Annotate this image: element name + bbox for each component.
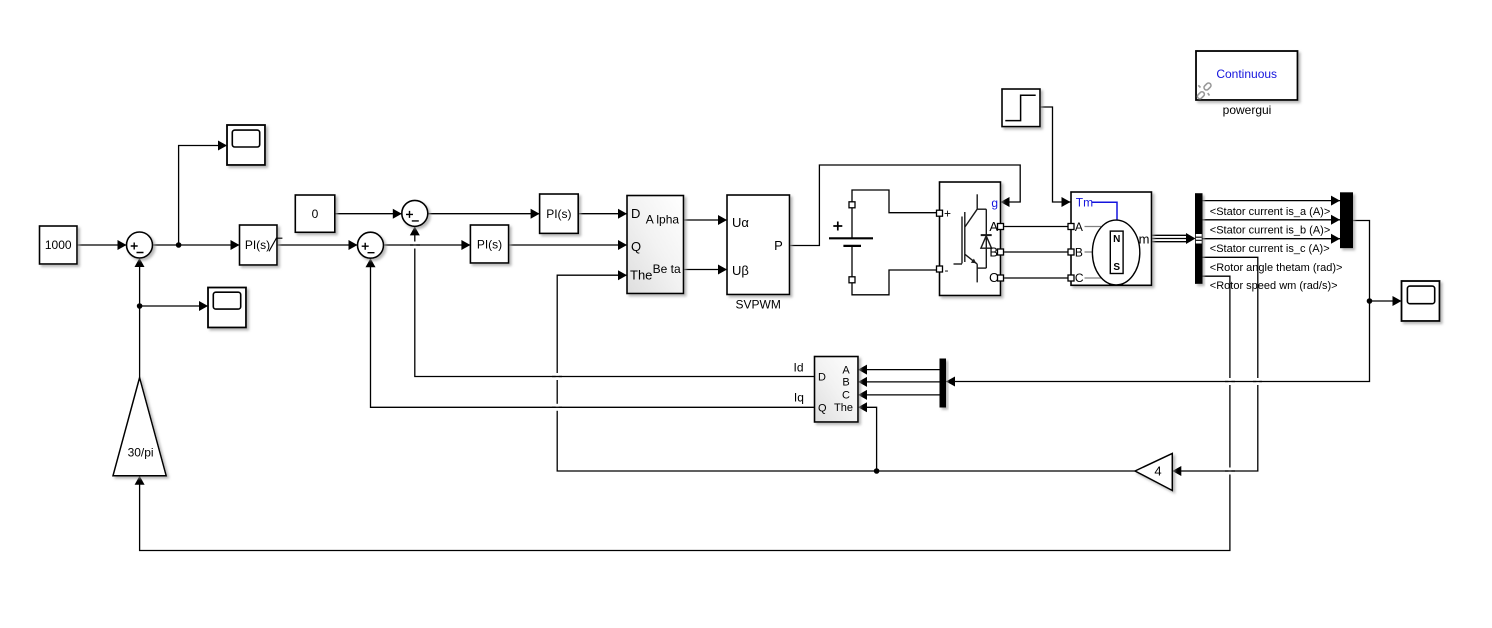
svg-text:4: 4 bbox=[1154, 463, 1161, 478]
svg-text:PI(s): PI(s) bbox=[477, 237, 502, 251]
svg-text:<Rotor angle thetam (rad)>: <Rotor angle thetam (rad)> bbox=[1210, 262, 1343, 274]
svg-text:D: D bbox=[631, 206, 640, 221]
svg-text:Iq: Iq bbox=[794, 390, 804, 404]
svg-text:Continuous: Continuous bbox=[1216, 67, 1277, 81]
svg-text:P: P bbox=[774, 238, 783, 253]
svg-text:Uβ: Uβ bbox=[732, 263, 749, 278]
svg-text:1000: 1000 bbox=[45, 238, 72, 252]
svg-text:A: A bbox=[989, 219, 998, 234]
svg-text:B: B bbox=[1075, 245, 1083, 259]
svg-text:A: A bbox=[842, 364, 850, 376]
svg-text:Q: Q bbox=[631, 239, 641, 254]
svg-text:-: - bbox=[945, 263, 949, 277]
svg-text:Q: Q bbox=[818, 402, 827, 414]
svg-text:B: B bbox=[989, 245, 998, 260]
svg-text:C: C bbox=[842, 390, 850, 402]
svg-text:m: m bbox=[1139, 232, 1150, 247]
svg-text:powergui: powergui bbox=[1223, 103, 1272, 117]
svg-text:The: The bbox=[834, 402, 853, 414]
svg-text:SVPWM: SVPWM bbox=[736, 298, 781, 312]
svg-text:+: + bbox=[944, 207, 951, 221]
svg-text:Id: Id bbox=[793, 360, 803, 374]
svg-text:The: The bbox=[630, 268, 652, 283]
svg-text:D: D bbox=[818, 371, 826, 383]
svg-text:C: C bbox=[1075, 271, 1084, 285]
svg-text:30/pi: 30/pi bbox=[128, 446, 154, 460]
svg-text:<Stator current is_a (A)>: <Stator current is_a (A)> bbox=[1210, 206, 1330, 218]
svg-text:C: C bbox=[989, 270, 998, 285]
svg-text:S: S bbox=[1113, 262, 1120, 273]
svg-text:PI(s): PI(s) bbox=[245, 238, 270, 252]
svg-text:N: N bbox=[1113, 234, 1120, 245]
svg-text:Be ta: Be ta bbox=[653, 262, 681, 276]
svg-text:PI(s): PI(s) bbox=[546, 207, 571, 221]
svg-text:Uα: Uα bbox=[732, 215, 749, 230]
svg-text:<Rotor speed wm (rad/s)>: <Rotor speed wm (rad/s)> bbox=[1210, 280, 1338, 292]
svg-text:0: 0 bbox=[312, 207, 319, 221]
svg-text:A: A bbox=[1075, 220, 1083, 234]
svg-text:<Stator current is_c (A)>: <Stator current is_c (A)> bbox=[1210, 243, 1330, 255]
svg-text:A lpha: A lpha bbox=[646, 213, 680, 227]
svg-text:g: g bbox=[991, 196, 998, 210]
svg-text:Tm: Tm bbox=[1076, 196, 1093, 210]
svg-text:<Stator current is_b (A)>: <Stator current is_b (A)> bbox=[1210, 224, 1330, 236]
svg-text:B: B bbox=[842, 377, 849, 389]
